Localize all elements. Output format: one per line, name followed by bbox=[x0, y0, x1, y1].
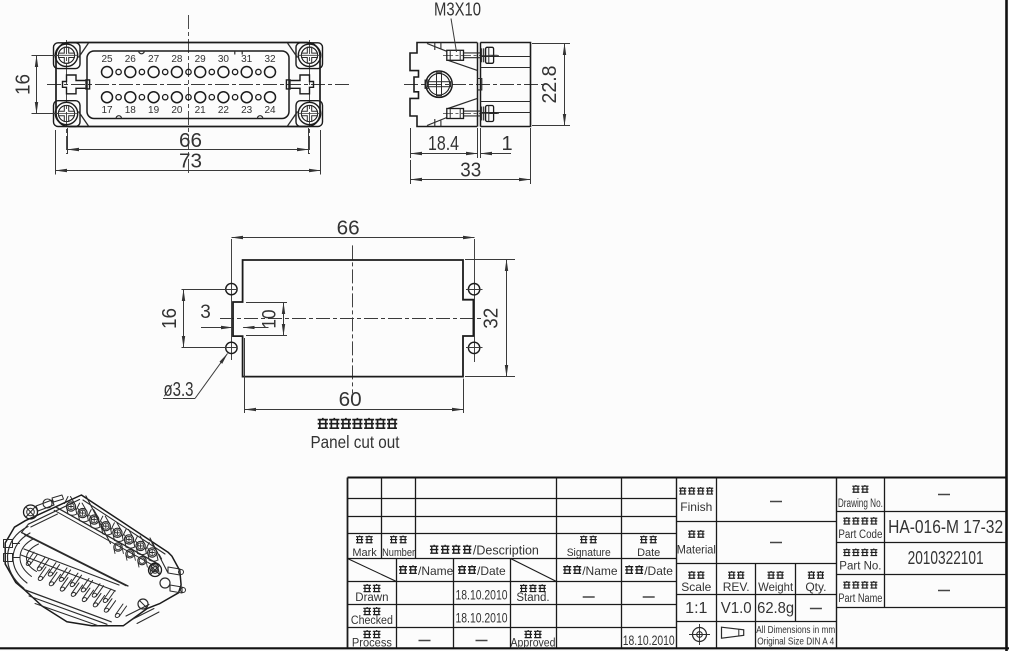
svg-text:18.10.2010: 18.10.2010 bbox=[456, 587, 508, 603]
svg-text:60: 60 bbox=[339, 389, 362, 411]
svg-text:66: 66 bbox=[337, 217, 360, 239]
svg-text:32: 32 bbox=[481, 308, 503, 329]
svg-text:V1.0: V1.0 bbox=[721, 600, 752, 617]
svg-text:Panel cut out: Panel cut out bbox=[311, 432, 400, 452]
svg-text:3: 3 bbox=[200, 302, 211, 323]
svg-text:1: 1 bbox=[501, 133, 512, 155]
svg-text:/Date: /Date bbox=[644, 564, 673, 578]
svg-text:/Description: /Description bbox=[473, 544, 539, 558]
svg-text:18.4: 18.4 bbox=[428, 133, 459, 155]
svg-text:Stand.: Stand. bbox=[516, 592, 549, 604]
svg-text:24: 24 bbox=[264, 105, 276, 116]
svg-text:Mark: Mark bbox=[352, 547, 377, 559]
svg-text:Part Code: Part Code bbox=[838, 529, 882, 541]
svg-text:62.8g: 62.8g bbox=[757, 600, 794, 617]
svg-text:73: 73 bbox=[179, 151, 202, 173]
svg-text:66: 66 bbox=[179, 130, 202, 152]
svg-text:10: 10 bbox=[260, 310, 281, 329]
svg-text:19: 19 bbox=[148, 105, 160, 116]
svg-text:Number: Number bbox=[382, 547, 415, 559]
svg-text:Finish: Finish bbox=[680, 500, 712, 514]
svg-text:27: 27 bbox=[148, 54, 160, 65]
svg-text:21: 21 bbox=[195, 105, 207, 116]
svg-text:Checked: Checked bbox=[351, 615, 393, 627]
svg-text:Signature: Signature bbox=[567, 547, 611, 559]
svg-text:29: 29 bbox=[195, 54, 207, 65]
svg-text:ø3.3: ø3.3 bbox=[164, 379, 194, 401]
svg-text:2010322101: 2010322101 bbox=[908, 548, 984, 568]
svg-text:Date: Date bbox=[637, 547, 660, 559]
svg-text:Part Name: Part Name bbox=[838, 593, 882, 605]
svg-text:16: 16 bbox=[159, 308, 181, 329]
svg-text:28: 28 bbox=[171, 54, 183, 65]
svg-text:18: 18 bbox=[125, 105, 137, 116]
svg-text:25: 25 bbox=[101, 54, 113, 65]
svg-text:Process: Process bbox=[352, 638, 392, 650]
svg-text:22.8: 22.8 bbox=[539, 66, 561, 104]
svg-text:17: 17 bbox=[101, 105, 113, 116]
svg-text:/Date: /Date bbox=[477, 564, 506, 578]
svg-text:1:1: 1:1 bbox=[685, 600, 707, 617]
svg-text:All Dimensions in mm: All Dimensions in mm bbox=[756, 625, 835, 636]
svg-text:Approved: Approved bbox=[511, 638, 556, 650]
svg-text:Material: Material bbox=[677, 543, 716, 557]
svg-text:M3X10: M3X10 bbox=[434, 0, 481, 20]
svg-text:18.10.2010: 18.10.2010 bbox=[623, 632, 675, 648]
svg-text:Original Size DIN A 4: Original Size DIN A 4 bbox=[757, 637, 834, 648]
svg-text:20: 20 bbox=[171, 105, 183, 116]
svg-text:Qty.: Qty. bbox=[805, 580, 826, 594]
svg-text:Drawing No.: Drawing No. bbox=[838, 498, 883, 510]
svg-text:30: 30 bbox=[218, 54, 230, 65]
svg-text:Weight: Weight bbox=[758, 580, 794, 594]
svg-text:16: 16 bbox=[13, 74, 35, 95]
svg-text:22: 22 bbox=[218, 105, 230, 116]
svg-text:18.10.2010: 18.10.2010 bbox=[456, 610, 508, 626]
svg-text:/Name: /Name bbox=[582, 564, 618, 578]
svg-text:33: 33 bbox=[460, 159, 481, 181]
svg-text:31: 31 bbox=[241, 54, 253, 65]
svg-text:HA-016-M 17-32: HA-016-M 17-32 bbox=[888, 517, 1003, 537]
svg-text:32: 32 bbox=[264, 54, 276, 65]
svg-text:Scale: Scale bbox=[681, 580, 711, 594]
svg-text:23: 23 bbox=[241, 105, 253, 116]
svg-text:Part No.: Part No. bbox=[839, 561, 881, 573]
svg-text:26: 26 bbox=[125, 54, 137, 65]
svg-text:/Name: /Name bbox=[418, 564, 454, 578]
svg-text:Drawn: Drawn bbox=[355, 592, 388, 604]
svg-text:REV.: REV. bbox=[723, 580, 750, 594]
